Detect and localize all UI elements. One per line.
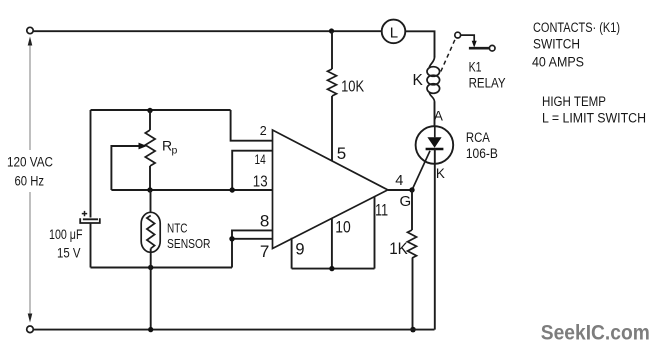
- switch K1 contacts: [441, 32, 495, 71]
- junction dot pin7: [229, 236, 234, 241]
- svg-text:10K: 10K: [341, 79, 364, 96]
- junction dot pin10: [329, 266, 334, 271]
- wire pin2: [231, 110, 273, 141]
- thermistor NTC: [150, 190, 152, 213]
- wire SCR cathode to bottom rail: [434, 149, 436, 330]
- svg-text:SENSOR: SENSOR: [167, 237, 211, 251]
- svg-text:SeekIC.com: SeekIC.com: [541, 321, 650, 345]
- svg-text:100 μF: 100 μF: [49, 227, 83, 242]
- wire pin11: [374, 197, 376, 269]
- svg-text:A: A: [434, 109, 443, 124]
- svg-text:NTC: NTC: [167, 221, 188, 235]
- wire box left / cap top lead: [90, 110, 92, 218]
- junction dot gate node: [409, 187, 414, 192]
- wire pin14: [232, 151, 272, 190]
- relay coil K: [427, 57, 440, 103]
- svg-text:13: 13: [253, 173, 268, 190]
- wiper arrow: [111, 146, 139, 190]
- wire lamp to relay corner: [405, 31, 434, 57]
- wire pin7: [232, 238, 273, 240]
- junction dot NTC bottom: [148, 265, 153, 270]
- svg-text:11: 11: [375, 202, 388, 220]
- svg-text:SWITCH: SWITCH: [533, 37, 580, 52]
- wire pin10: [331, 218, 333, 268]
- wire pin4 to gate node: [388, 189, 412, 191]
- svg-text:HIGH TEMP: HIGH TEMP: [542, 94, 606, 109]
- svg-text:60 Hz: 60 Hz: [15, 174, 45, 189]
- SCR RCA 106-B: [416, 126, 454, 164]
- lamp L: [382, 20, 406, 44]
- junction dot 13/14: [230, 187, 235, 192]
- wire top rail: [33, 30, 382, 32]
- svg-text:K1: K1: [469, 60, 482, 75]
- terminal bottom-left: [27, 326, 34, 333]
- wire pin13 net: [111, 189, 272, 191]
- wire bottom rail: [33, 329, 434, 331]
- wire pins 9-11 bottom: [292, 268, 375, 270]
- svg-text:8: 8: [260, 212, 269, 231]
- resistor 1K: [411, 190, 413, 230]
- voltage measure arrow: [28, 37, 33, 323]
- wire pin9: [291, 238, 293, 269]
- svg-text:7: 7: [260, 242, 269, 261]
- svg-text:G: G: [400, 193, 412, 210]
- junction dot 1K bottom: [410, 327, 416, 333]
- junction dot 10K top: [329, 28, 334, 33]
- svg-text:5: 5: [337, 144, 346, 163]
- svg-text:15 V: 15 V: [57, 246, 81, 261]
- svg-text:RCA: RCA: [466, 130, 490, 145]
- svg-text:4: 4: [395, 173, 403, 189]
- svg-text:K: K: [436, 166, 445, 181]
- wire box top: [91, 109, 231, 111]
- svg-text:10: 10: [335, 218, 351, 236]
- svg-text:9: 9: [295, 240, 304, 258]
- wire cap bottom lead: [90, 223, 92, 268]
- svg-text:40 AMPS: 40 AMPS: [532, 55, 584, 70]
- junction dot Rp top: [147, 108, 152, 113]
- svg-text:106-B: 106-B: [466, 146, 498, 161]
- resistor 10K: [331, 31, 333, 69]
- svg-text:2: 2: [260, 124, 267, 138]
- gate wire: [412, 151, 430, 190]
- terminal top-left: [27, 27, 33, 33]
- junction dot NTC rail: [148, 327, 153, 332]
- svg-text:RELAY: RELAY: [469, 75, 506, 90]
- svg-text:L = LIMIT SWITCH: L = LIMIT SWITCH: [542, 111, 646, 126]
- svg-text:L: L: [390, 25, 398, 42]
- svg-text:CONTACTS· (K1): CONTACTS· (K1): [533, 20, 620, 35]
- svg-text:p: p: [172, 145, 178, 157]
- wire pin8: [232, 230, 273, 267]
- wire mid rail: [91, 267, 233, 269]
- svg-text:1K: 1K: [389, 240, 408, 258]
- svg-text:120 VAC: 120 VAC: [7, 155, 53, 170]
- potentiometer Rp: [149, 111, 151, 131]
- op-amp U1: [273, 130, 388, 249]
- svg-text:14: 14: [255, 152, 267, 167]
- wire coil to SCR: [434, 102, 436, 127]
- capacitor C1: [80, 211, 100, 223]
- svg-text:K: K: [413, 72, 424, 89]
- junction dot Rp bottom: [147, 187, 152, 192]
